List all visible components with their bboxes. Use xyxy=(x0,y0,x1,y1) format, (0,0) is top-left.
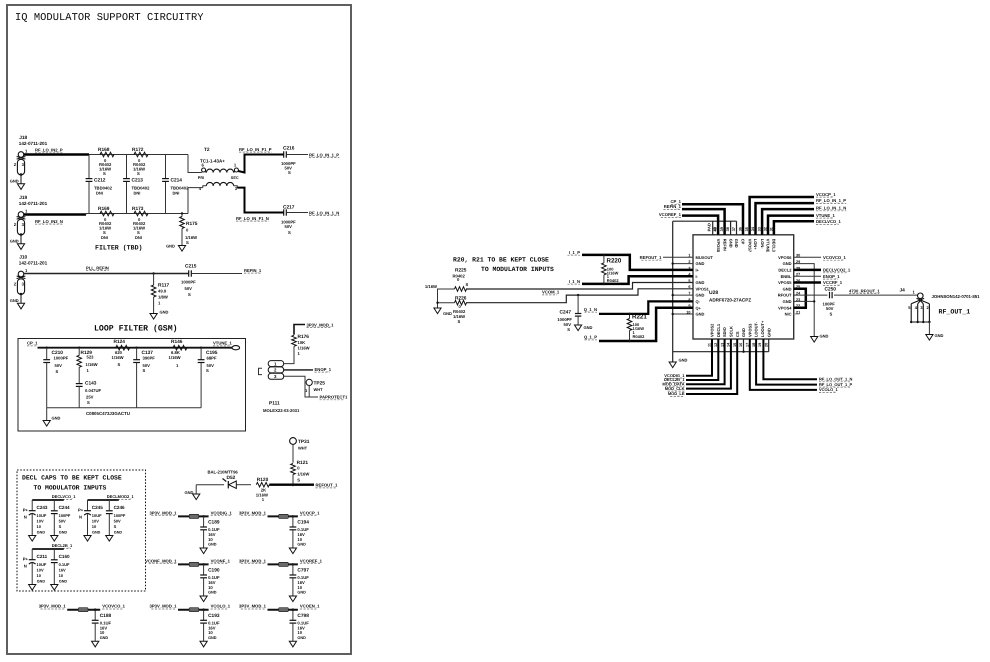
svg-text:VPOS8: VPOS8 xyxy=(716,239,721,253)
wire DECL2B_1 from U28 xyxy=(686,339,718,380)
ground at R175 xyxy=(166,244,186,252)
svg-text:D52: D52 xyxy=(227,475,236,481)
capacitor C210 xyxy=(43,347,68,408)
connector P111 xyxy=(259,361,300,414)
svg-text:S: S xyxy=(297,478,300,483)
svg-text:SCLK: SCLK xyxy=(729,326,734,337)
net ENOP_1 at P111 xyxy=(315,367,332,372)
svg-text:C143: C143 xyxy=(85,381,97,387)
svg-text:VCOM_1: VCOM_1 xyxy=(542,290,560,295)
svg-text:C246: C246 xyxy=(114,505,125,510)
net I_1_N xyxy=(567,279,580,284)
svg-text:50V: 50V xyxy=(55,363,63,368)
svg-text:3P3V_MOD_1: 3P3V_MOD_1 xyxy=(307,322,335,327)
wire I_1_P to pin3 xyxy=(582,255,693,270)
svg-text:RF_LO_IN2_N: RF_LO_IN2_N xyxy=(35,219,63,224)
svg-text:CP_1: CP_1 xyxy=(27,341,38,346)
wire VTUNE_1 bundle xyxy=(768,216,814,235)
svg-text:R172: R172 xyxy=(132,147,144,153)
wire R176 top xyxy=(294,325,305,335)
capacitor C216 xyxy=(281,146,296,175)
svg-text:GND: GND xyxy=(783,299,792,304)
svg-text:S: S xyxy=(114,524,117,529)
svg-text:VCONF_1: VCONF_1 xyxy=(211,558,231,563)
svg-text:C214: C214 xyxy=(171,178,183,184)
svg-text:GND: GND xyxy=(696,280,705,285)
ground at J4 xyxy=(926,333,944,340)
svg-text:1/16W: 1/16W xyxy=(425,284,437,289)
svg-text:VCOVCO_1: VCOVCO_1 xyxy=(102,604,125,609)
wire Q_1_P to pin9 xyxy=(599,308,693,341)
wire filter bottom row xyxy=(86,213,188,215)
svg-text:GND: GND xyxy=(10,179,19,184)
net VCOLO_1 at U28 xyxy=(819,387,838,392)
svg-text:3P3V_MOD_1: 3P3V_MOD_1 xyxy=(39,604,67,609)
wire C215 out xyxy=(191,273,242,275)
wire PAD ground ring xyxy=(673,221,737,352)
svg-text:CS: CS xyxy=(735,331,740,337)
svg-text:GND: GND xyxy=(766,328,771,337)
svg-text:GND: GND xyxy=(297,636,306,640)
svg-text:GND: GND xyxy=(728,239,733,248)
svg-text:GND: GND xyxy=(297,591,306,595)
svg-text:GND: GND xyxy=(584,325,593,330)
transformer T2 xyxy=(198,147,239,191)
svg-text:LON+: LON+ xyxy=(753,239,758,250)
bead and capacitor C190 xyxy=(145,558,231,601)
svg-text:GND: GND xyxy=(696,293,705,298)
svg-text:VCOCP_1: VCOCP_1 xyxy=(816,192,836,197)
wire C216 out xyxy=(286,154,308,156)
svg-text:GND: GND xyxy=(10,239,19,244)
wire J10 to C215 xyxy=(24,273,189,275)
svg-text:NIC: NIC xyxy=(785,312,792,317)
loop filter box xyxy=(18,339,246,432)
title IQ MODULATOR SUPPORT CIRCUITRY xyxy=(15,12,204,24)
svg-text:RF_LO_IN_1_N: RF_LO_IN_1_N xyxy=(816,206,846,211)
resistor R129 xyxy=(77,347,98,384)
resistor R124 xyxy=(112,339,130,367)
wire C217 out xyxy=(286,212,308,214)
net RF_LO_OUT_1_N at U28 xyxy=(819,377,852,382)
svg-text:VPOS7: VPOS7 xyxy=(747,239,752,253)
svg-text:WHT: WHT xyxy=(314,387,324,392)
svg-text:U28: U28 xyxy=(709,290,718,296)
svg-text:BAL-210MTT96: BAL-210MTT96 xyxy=(208,470,239,475)
wire DECLVCO_1 bundle xyxy=(774,221,814,235)
svg-text:10: 10 xyxy=(297,630,302,635)
svg-text:S: S xyxy=(188,292,191,297)
svg-text:VPOS3: VPOS3 xyxy=(747,323,752,337)
svg-text:DNI: DNI xyxy=(135,235,142,240)
decl caps dashed box xyxy=(17,470,146,591)
svg-text:VCONF_MOD_1: VCONF_MOD_1 xyxy=(145,558,177,563)
svg-text:GND: GND xyxy=(10,298,19,303)
wire top row to T2 pri xyxy=(188,155,202,173)
net PLL_REFIN xyxy=(86,265,109,270)
svg-text:PAD: PAD xyxy=(707,223,712,231)
wire REFIN_1 bundle xyxy=(682,209,725,235)
svg-text:GND: GND xyxy=(114,530,123,534)
svg-text:VPOS2: VPOS2 xyxy=(710,323,715,337)
svg-text:10: 10 xyxy=(297,537,302,542)
svg-text:1/16W: 1/16W xyxy=(298,346,310,351)
svg-text:C247: C247 xyxy=(560,310,572,316)
svg-text:GND: GND xyxy=(208,591,217,595)
svg-text:MOD_LE: MOD_LE xyxy=(668,391,685,396)
svg-text:REFIN: REFIN xyxy=(722,239,727,251)
net VCODIG_1 at U28 xyxy=(664,373,685,378)
ground loop filter xyxy=(43,408,60,426)
svg-text:DECLVCO_1: DECLVCO_1 xyxy=(52,494,76,499)
svg-text:GND: GND xyxy=(696,261,705,266)
wire RF_LO_OUT_1_N from U28 xyxy=(763,339,817,379)
svg-text:VPOS5: VPOS5 xyxy=(778,280,792,285)
label JOHNSON142-0701-851 xyxy=(932,294,981,299)
svg-text:R146: R146 xyxy=(171,339,183,345)
svg-text:S: S xyxy=(288,230,291,235)
wire R225 R226 gnd tie xyxy=(436,289,454,308)
svg-text:GND: GND xyxy=(783,286,792,291)
svg-text:FILTER (TBD): FILTER (TBD) xyxy=(95,245,142,252)
svg-text:10: 10 xyxy=(297,585,302,590)
svg-text:WHT: WHT xyxy=(298,446,308,451)
svg-text:R120: R120 xyxy=(257,477,269,483)
svg-text:C797: C797 xyxy=(297,568,309,574)
svg-text:19: 19 xyxy=(758,343,762,347)
svg-text:R220: R220 xyxy=(607,257,622,264)
svg-text:DECLVCO2_1: DECLVCO2_1 xyxy=(823,268,851,273)
svg-text:TO MODULATOR INPUTS: TO MODULATOR INPUTS xyxy=(481,266,554,273)
svg-text:N: N xyxy=(79,515,82,520)
svg-text:C0805C473J3GACTU: C0805C473J3GACTU xyxy=(86,411,130,416)
net DECLVCO2_1 at U28 xyxy=(823,268,851,273)
svg-text:RF_LO_IN_F1_N: RF_LO_IN_F1_N xyxy=(236,216,269,221)
net VCOREF_1 at U28 xyxy=(659,212,682,217)
svg-text:PRI: PRI xyxy=(198,176,204,180)
svg-text:GND: GND xyxy=(92,530,101,534)
svg-text:RF_LO_IN_1_P: RF_LO_IN_1_P xyxy=(816,198,846,203)
svg-text:DNI: DNI xyxy=(96,190,103,195)
wire MOD_CLK from U28 xyxy=(686,339,731,389)
svg-text:SDIO: SDIO xyxy=(722,327,727,337)
bead and capacitor C188 xyxy=(39,604,126,647)
svg-text:142-0711-201: 142-0711-201 xyxy=(19,201,48,206)
svg-text:10: 10 xyxy=(59,573,64,578)
svg-text:VCOEN_1: VCOEN_1 xyxy=(300,604,320,609)
resistor R175 xyxy=(180,212,198,245)
svg-text:10V: 10V xyxy=(37,568,44,573)
svg-text:DECL3: DECL3 xyxy=(772,239,777,253)
svg-text:1/16W: 1/16W xyxy=(297,471,309,476)
svg-text:GND: GND xyxy=(820,334,829,339)
net RF_LO_IN_F1_N xyxy=(236,216,269,221)
svg-text:390PF: 390PF xyxy=(143,356,156,361)
svg-text:S: S xyxy=(56,369,59,374)
capacitor C143 xyxy=(76,381,102,408)
diode D52 xyxy=(208,470,239,489)
svg-text:C216: C216 xyxy=(283,146,295,152)
svg-text:IQ MODULATOR SUPPORT CIRCUITRY: IQ MODULATOR SUPPORT CIRCUITRY xyxy=(15,12,204,24)
capacitors C211 C160 xyxy=(23,543,73,590)
wire MOD_DATA from U28 xyxy=(686,339,725,384)
svg-text:GND: GND xyxy=(166,244,175,249)
svg-text:T2: T2 xyxy=(204,147,210,153)
wire RF_LO_IN_1_P bundle xyxy=(756,203,815,235)
capacitor C250 xyxy=(823,287,837,317)
net RF_LO_IN_1_P at U28 xyxy=(816,198,846,203)
note R20 R21 line2 xyxy=(481,266,554,273)
svg-text:C250: C250 xyxy=(825,287,837,293)
svg-text:10K: 10K xyxy=(298,340,306,345)
svg-text:38: 38 xyxy=(726,227,730,231)
svg-text:10UF: 10UF xyxy=(37,562,47,567)
net VCOM_1 xyxy=(542,290,560,295)
svg-text:16: 16 xyxy=(739,343,743,347)
svg-text:S: S xyxy=(466,282,469,287)
svg-text:DNI: DNI xyxy=(134,190,141,195)
svg-text:1000PF: 1000PF xyxy=(181,280,196,285)
wire pin29 GND xyxy=(794,264,815,337)
resistor R225 xyxy=(425,268,469,292)
svg-text:S: S xyxy=(186,240,189,245)
svg-text:REFIN_1: REFIN_1 xyxy=(244,268,262,273)
net RF_LO_IN_1_N xyxy=(309,210,339,215)
connector J18 xyxy=(10,135,48,189)
note DECL CAPS line2 xyxy=(34,484,107,491)
svg-text:10: 10 xyxy=(92,524,97,529)
svg-text:523: 523 xyxy=(87,355,95,360)
net 4730_RFOUT_1 xyxy=(849,288,880,293)
wire RF_LO_IN_1_N bundle xyxy=(762,209,814,235)
net CP_1 at U28 xyxy=(671,199,682,204)
svg-text:SEC: SEC xyxy=(231,176,239,180)
svg-text:GND: GND xyxy=(297,543,306,547)
capacitor C215 xyxy=(181,264,197,298)
svg-text:C217: C217 xyxy=(283,205,295,211)
svg-text:P+: P+ xyxy=(23,557,29,562)
svg-text:49.9: 49.9 xyxy=(158,289,167,294)
svg-text:RF_LO_IN_F1_P: RF_LO_IN_F1_P xyxy=(239,147,272,152)
wire pin30 xyxy=(794,256,821,258)
svg-text:R226: R226 xyxy=(455,295,467,301)
net REFIN_1 xyxy=(244,268,262,273)
net RF_LO_IN_F1_P xyxy=(239,147,272,152)
svg-text:RF_OUT_1: RF_OUT_1 xyxy=(939,309,971,316)
wire GND bus below U28 xyxy=(673,339,769,362)
wire pin26 xyxy=(794,281,821,284)
svg-text:MOD_CLK: MOD_CLK xyxy=(665,386,685,391)
svg-text:Q-: Q- xyxy=(696,299,701,304)
svg-text:GND: GND xyxy=(100,636,109,640)
svg-text:50V: 50V xyxy=(285,224,293,229)
svg-text:1/16W: 1/16W xyxy=(112,355,124,360)
svg-text:C245: C245 xyxy=(92,505,103,510)
svg-text:C798: C798 xyxy=(297,613,309,619)
capacitor C217 xyxy=(281,205,296,235)
bead and capacitor C189 xyxy=(150,510,233,553)
svg-text:10V: 10V xyxy=(37,519,44,524)
label cap part number xyxy=(86,411,130,416)
resistor R226 xyxy=(453,295,467,324)
svg-text:REFOUT_1: REFOUT_1 xyxy=(640,255,663,260)
svg-text:37: 37 xyxy=(732,227,736,231)
svg-text:GND: GND xyxy=(59,530,68,534)
svg-text:VCCRF_1: VCCRF_1 xyxy=(823,280,843,285)
svg-text:GND: GND xyxy=(37,530,46,534)
svg-text:RF_LO_IN_1_N: RF_LO_IN_1_N xyxy=(309,210,339,215)
svg-text:R0402: R0402 xyxy=(607,278,620,283)
wire VCOCP_1 bundle xyxy=(750,197,814,235)
resistor R172 xyxy=(132,147,148,176)
resistor R176 xyxy=(292,334,310,358)
svg-text:S: S xyxy=(137,171,140,176)
net 3P3V_MOD_1 at R176 xyxy=(307,322,335,327)
svg-text:50V: 50V xyxy=(826,306,834,311)
svg-text:C213: C213 xyxy=(132,178,144,184)
svg-text:50V: 50V xyxy=(185,286,193,291)
svg-text:VTUNE_1: VTUNE_1 xyxy=(816,213,836,218)
svg-text:S: S xyxy=(830,311,833,316)
sheet border xyxy=(7,5,351,654)
svg-text:P111: P111 xyxy=(269,401,280,407)
svg-text:3P3V_MOD_1: 3P3V_MOD_1 xyxy=(239,604,267,609)
capacitor C213 xyxy=(123,155,150,214)
svg-text:REFOUT_1: REFOUT_1 xyxy=(316,483,339,488)
label LOOP FILTER (GSM) xyxy=(94,325,178,334)
svg-text:ENOP_1: ENOP_1 xyxy=(315,367,332,372)
wire CP_1 bundle xyxy=(682,204,743,235)
svg-text:100PF: 100PF xyxy=(114,513,126,518)
svg-text:VTUNE_1: VTUNE_1 xyxy=(213,341,233,346)
svg-text:LOOUT-: LOOUT- xyxy=(754,321,759,337)
net VCOCP_1 at U28 xyxy=(816,192,836,197)
svg-text:VTUNE: VTUNE xyxy=(766,239,771,253)
net RF_LO_IN2_N xyxy=(35,219,63,224)
svg-text:Q_1_P: Q_1_P xyxy=(584,335,597,340)
wire J18 to filter xyxy=(24,153,89,155)
svg-text:ENBL: ENBL xyxy=(781,274,792,279)
svg-text:VCODIG_1: VCODIG_1 xyxy=(211,510,233,515)
svg-text:C244: C244 xyxy=(59,505,70,510)
svg-text:10: 10 xyxy=(208,585,213,590)
svg-text:0.047UF: 0.047UF xyxy=(85,388,102,393)
wire pin1 REFOUT xyxy=(663,256,693,258)
capacitor C137 xyxy=(133,347,155,408)
svg-text:GND: GND xyxy=(935,333,944,338)
svg-text:TO MODULATOR INPUTS: TO MODULATOR INPUTS xyxy=(34,484,107,491)
net RF_OUT_1 xyxy=(939,309,971,316)
bead and capacitor C194 xyxy=(239,510,320,553)
svg-text:20: 20 xyxy=(764,343,768,347)
net VTUNE_1 flag xyxy=(213,341,240,350)
svg-text:P+: P+ xyxy=(78,508,84,513)
wire R120 to REFOUT xyxy=(269,483,314,486)
svg-text:GND: GND xyxy=(679,358,688,363)
net VCCRF_1 at U28 xyxy=(823,280,843,285)
svg-text:PAPROTECT1: PAPROTECT1 xyxy=(320,395,349,400)
svg-text:4730_RFOUT_1: 4730_RFOUT_1 xyxy=(849,288,880,293)
svg-text:VCOLO_1: VCOLO_1 xyxy=(819,387,838,392)
wire pin25 pin22 tie xyxy=(794,289,806,308)
net RF_LO_IN_1_N at U28 xyxy=(816,206,846,211)
svg-text:C243: C243 xyxy=(37,505,48,510)
svg-text:142-0711-201: 142-0711-201 xyxy=(19,260,48,265)
net VTUNE_1 at U28 xyxy=(816,213,836,218)
svg-text:VPOS4: VPOS4 xyxy=(778,305,792,310)
svg-text:GND: GND xyxy=(734,239,739,248)
svg-text:GND: GND xyxy=(443,311,452,316)
label FILTER (TBD) xyxy=(95,245,142,252)
wire R225 to pin5 xyxy=(466,283,693,290)
resistor R117 xyxy=(151,272,169,313)
resistor R221 xyxy=(627,313,647,343)
svg-text:MOLEX22-03-2031: MOLEX22-03-2031 xyxy=(263,408,300,413)
wire P111 pin2 xyxy=(284,369,313,371)
resistor R220 xyxy=(602,254,622,286)
svg-text:1/8W: 1/8W xyxy=(158,295,168,300)
wire VCOREF_1 bundle xyxy=(682,216,718,235)
net RF_LO_IN_1_P xyxy=(309,152,339,157)
svg-text:10: 10 xyxy=(37,573,42,578)
wire D52 row xyxy=(196,484,251,486)
svg-text:S: S xyxy=(567,327,570,332)
wire Q_1_N to pin8 xyxy=(599,301,693,314)
note DECL CAPS line1 xyxy=(22,475,122,482)
wire P111 pin1 to R176 xyxy=(284,358,294,364)
svg-text:10UF: 10UF xyxy=(92,513,102,518)
svg-text:Q+: Q+ xyxy=(696,305,702,310)
svg-text:REFIN_1: REFIN_1 xyxy=(664,204,682,209)
svg-text:Q_1_N: Q_1_N xyxy=(584,307,597,312)
bead and capacitor C193 xyxy=(150,604,231,647)
svg-text:RF_LO_IN_1_P: RF_LO_IN_1_P xyxy=(309,152,339,157)
wire pin23 GND xyxy=(794,300,816,302)
svg-text:R124: R124 xyxy=(114,339,126,345)
net Q_1_N xyxy=(584,307,597,312)
net RF_LO_IN2_P xyxy=(35,148,63,153)
svg-text:50V: 50V xyxy=(114,519,121,524)
svg-text:JOHNSON142-0701-851: JOHNSON142-0701-851 xyxy=(932,294,981,299)
svg-text:GND: GND xyxy=(696,312,705,317)
resistor R120 xyxy=(256,477,269,502)
svg-text:GND: GND xyxy=(208,636,217,640)
net PAPROTECT1 xyxy=(320,395,349,400)
svg-text:S: S xyxy=(87,400,90,405)
svg-text:R20, R21 TO BE KEPT CLOSE: R20, R21 TO BE KEPT CLOSE xyxy=(453,256,549,263)
wire loop filter top rail xyxy=(38,347,232,349)
svg-text:N: N xyxy=(24,564,27,569)
ground right of U28 xyxy=(811,334,829,343)
svg-text:25V: 25V xyxy=(86,395,94,400)
svg-text:ENOP_1: ENOP_1 xyxy=(823,274,840,279)
svg-text:VPOS6: VPOS6 xyxy=(778,255,792,260)
svg-text:DECL2: DECL2 xyxy=(778,268,792,273)
svg-text:142-0711-201: 142-0711-201 xyxy=(19,141,48,146)
bead and capacitor C797 xyxy=(239,558,323,601)
svg-text:VCOREF_1: VCOREF_1 xyxy=(300,558,323,563)
svg-text:DECL1: DECL1 xyxy=(716,323,721,337)
svg-text:RF_LO_OUT_1_P: RF_LO_OUT_1_P xyxy=(819,382,852,387)
bead and capacitor C798 xyxy=(239,604,320,647)
op-amp U28 ADRF6720-27ACPZ xyxy=(686,223,801,347)
svg-text:10: 10 xyxy=(208,630,213,635)
capacitors C243 C244 xyxy=(23,494,77,541)
svg-text:3P3V_MOD_1: 3P3V_MOD_1 xyxy=(239,558,267,563)
svg-text:S: S xyxy=(118,362,121,367)
note R20 R21 line1 xyxy=(453,256,549,263)
svg-text:3P3V_MOD_1: 3P3V_MOD_1 xyxy=(150,604,178,609)
